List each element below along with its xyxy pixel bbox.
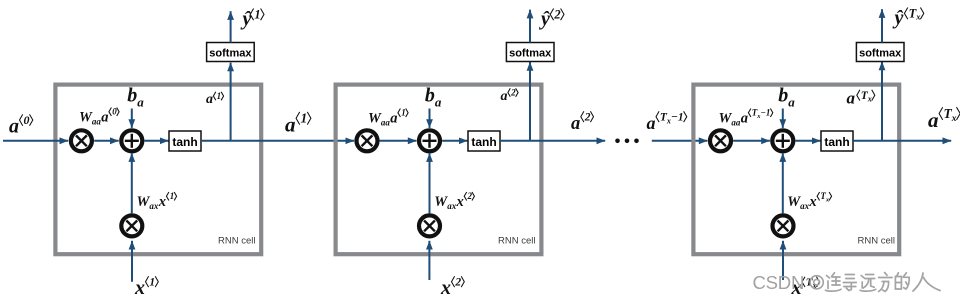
svg-text:a: a xyxy=(435,94,442,109)
softmax box cell 3 xyxy=(856,43,904,62)
svg-text:RNN cell: RNN cell xyxy=(498,236,535,247)
wire bias b_a into add cell 3 xyxy=(782,109,784,128)
wire tanh cell 1 to multiply cell 2 xyxy=(201,140,354,142)
svg-text:W: W xyxy=(787,194,801,210)
wire junction up to softmax cell 2 xyxy=(529,62,531,141)
svg-text:0: 0 xyxy=(112,107,117,117)
svg-text:x: x xyxy=(915,12,921,22)
svg-text:a: a xyxy=(647,113,656,133)
wire softmax cell 3 to output xyxy=(881,9,883,42)
svg-text:a: a xyxy=(501,89,508,104)
svg-text:ax: ax xyxy=(149,201,159,211)
svg-text:CSDN: CSDN xyxy=(753,272,805,293)
wire multiply to add cell 2 xyxy=(380,140,417,142)
wire tanh cell 3 to output xyxy=(853,140,951,142)
svg-text:W: W xyxy=(137,194,151,210)
label a^(Tx) inside cell 3 xyxy=(847,89,875,108)
svg-text:a: a xyxy=(928,108,939,132)
svg-text:tanh: tanh xyxy=(824,135,849,149)
svg-text:softmax: softmax xyxy=(509,48,552,60)
svg-text:W: W xyxy=(719,111,733,127)
svg-text:ŷ: ŷ xyxy=(539,8,550,30)
svg-text:b: b xyxy=(127,85,137,107)
add node cell 1 xyxy=(121,130,142,151)
svg-text:a: a xyxy=(571,114,580,134)
wire lower multiply to add cell 3 xyxy=(782,153,784,213)
label a^(2) after cell 2 xyxy=(571,111,594,134)
wire multiply to add cell 1 xyxy=(94,140,119,142)
label y-hat^(2) xyxy=(539,8,564,31)
svg-text:1: 1 xyxy=(170,191,175,201)
watermark hanzi xun xyxy=(843,275,856,291)
label x^(1) xyxy=(134,276,158,299)
label a^(2) inside cell 2 xyxy=(501,88,519,105)
wire add to tanh cell 3 xyxy=(795,140,820,142)
watermark hanzi zhui xyxy=(826,273,842,291)
watermark hanzi ren xyxy=(913,273,940,291)
svg-text:softmax: softmax xyxy=(209,48,252,60)
svg-text:ax: ax xyxy=(447,201,457,211)
wire input x1 into cell 1 xyxy=(131,241,133,282)
svg-text:a: a xyxy=(9,115,19,137)
svg-text:−1: −1 xyxy=(671,112,684,124)
svg-text:0: 0 xyxy=(24,113,30,127)
multiply node Wax*x1 cell 1 xyxy=(121,215,142,236)
svg-text:x: x xyxy=(134,277,145,299)
RNN cell 3 box xyxy=(693,85,899,255)
label Waa a^(Tx-1) cell 3 xyxy=(719,108,773,128)
tanh box cell 3 xyxy=(821,131,853,151)
label Waa a^(1) cell 2 xyxy=(368,108,408,128)
svg-text:2: 2 xyxy=(454,277,461,289)
svg-text:ŷ: ŷ xyxy=(893,7,904,29)
svg-text:x: x xyxy=(440,277,451,299)
svg-text:a: a xyxy=(788,94,795,109)
label y-hat^(Tx) xyxy=(893,7,924,30)
wire lower multiply to add cell 1 xyxy=(131,153,133,213)
svg-text:x: x xyxy=(867,95,872,104)
svg-text:1: 1 xyxy=(254,8,260,22)
svg-text:a: a xyxy=(137,94,144,109)
multiply node Waa*a0 cell 1 xyxy=(71,130,92,151)
label a^(Tx-1) xyxy=(647,111,687,133)
svg-text:b: b xyxy=(778,85,788,107)
label b_a cell 1 xyxy=(127,85,144,110)
svg-text:RNN cell: RNN cell xyxy=(218,236,255,247)
wire bias b_a into add cell 1 xyxy=(131,109,133,128)
svg-text:softmax: softmax xyxy=(859,48,902,60)
svg-text:aa: aa xyxy=(92,117,102,127)
wire tanh cell 2 output arrow xyxy=(500,140,605,142)
label x^(Tx) xyxy=(791,277,820,300)
wire add to tanh cell 1 xyxy=(144,140,168,142)
ellipsis dots between cell 2 and cell 3 xyxy=(615,139,639,144)
svg-text:1: 1 xyxy=(217,91,222,101)
svg-text:W: W xyxy=(434,194,448,210)
svg-text:x: x xyxy=(158,194,166,210)
wire multiply to add cell 3 xyxy=(733,140,770,142)
label b_a cell 2 xyxy=(425,85,442,110)
label Wax x^(Tx) xyxy=(787,191,831,211)
svg-text:2: 2 xyxy=(553,8,560,22)
svg-text:x: x xyxy=(808,194,816,210)
multiply node Wax cell 3 xyxy=(773,215,794,236)
svg-text:x: x xyxy=(456,194,464,210)
svg-text:a: a xyxy=(206,92,213,107)
svg-text:−1: −1 xyxy=(760,108,770,118)
multiply node Waa*a1 cell 2 xyxy=(357,130,378,151)
label a^(Tx) output xyxy=(928,106,960,132)
watermark hanzi yuan xyxy=(860,275,876,292)
label Wax x^(1) xyxy=(137,191,177,211)
wire bias b_a into add cell 2 xyxy=(429,109,431,128)
svg-text:2: 2 xyxy=(467,191,473,201)
wire add to tanh cell 2 xyxy=(442,140,468,142)
svg-text:a: a xyxy=(101,110,108,126)
tanh box cell 1 xyxy=(169,131,201,151)
multiply node Wax*x2 cell 2 xyxy=(419,215,440,236)
svg-text:aa: aa xyxy=(731,118,741,128)
wire input xTx into cell 3 xyxy=(782,241,784,280)
label a^(1) inside cell 1 xyxy=(206,91,224,107)
svg-text:1: 1 xyxy=(149,277,155,289)
label x^(2) xyxy=(440,276,464,299)
label a^(0) xyxy=(9,113,33,137)
svg-text:a: a xyxy=(847,89,856,108)
wire junction up to softmax cell 1 xyxy=(230,63,232,141)
wire softmax cell 2 to output xyxy=(529,10,531,43)
svg-text:2: 2 xyxy=(584,112,591,124)
wire into cell 3 xyxy=(652,140,708,142)
watermark hanzi fang xyxy=(879,273,893,292)
svg-text:ax: ax xyxy=(800,201,810,211)
add node cell 3 xyxy=(772,130,793,151)
svg-text:a: a xyxy=(285,113,296,137)
svg-text:a: a xyxy=(741,111,748,127)
svg-text:tanh: tanh xyxy=(471,135,496,149)
wire softmax cell 1 to output xyxy=(230,11,232,42)
svg-text:2: 2 xyxy=(510,88,516,98)
wire input a0 into cell 1 xyxy=(3,140,68,142)
label Wax x^(2) xyxy=(434,191,474,211)
svg-text:1: 1 xyxy=(301,111,308,126)
label b_a cell 3 xyxy=(778,85,795,110)
svg-text:W: W xyxy=(368,111,382,127)
wire input x2 into cell 2 xyxy=(428,241,430,280)
tanh box cell 2 xyxy=(468,131,500,151)
wire junction up to softmax cell 3 xyxy=(881,62,883,141)
svg-text:W: W xyxy=(79,110,93,126)
label y-hat^(1) xyxy=(241,8,265,31)
svg-text:tanh: tanh xyxy=(172,135,197,149)
label Waa a^(0) xyxy=(79,107,119,127)
add node cell 2 xyxy=(419,130,440,151)
svg-text:x: x xyxy=(951,114,957,124)
svg-text:RNN cell: RNN cell xyxy=(858,236,895,247)
watermark hanzi de xyxy=(895,273,909,289)
svg-text:aa: aa xyxy=(381,118,391,128)
RNN cell 2 box xyxy=(336,85,542,255)
multiply node Waa cell 3 xyxy=(710,130,731,151)
softmax box cell 1 xyxy=(207,43,255,62)
wire lower multiply to add cell 2 xyxy=(429,153,431,213)
softmax box cell 2 xyxy=(506,43,554,62)
svg-text:1: 1 xyxy=(401,108,406,118)
svg-text:a: a xyxy=(390,111,397,127)
svg-text:ŷ: ŷ xyxy=(241,8,252,30)
watermark at-sign xyxy=(810,276,823,289)
RNN cell 1 box xyxy=(55,85,261,255)
svg-text:b: b xyxy=(425,85,435,107)
label a^(1) between cells xyxy=(285,111,311,137)
